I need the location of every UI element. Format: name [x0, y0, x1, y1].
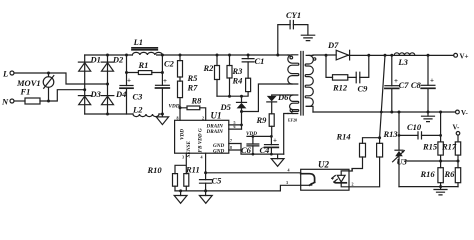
svg-text:+: +	[430, 77, 434, 85]
svg-text:2: 2	[202, 115, 204, 120]
svg-text:EF20: EF20	[288, 118, 297, 123]
svg-text:C7: C7	[399, 80, 410, 90]
svg-text:VDD: VDD	[169, 103, 180, 109]
svg-text:C6: C6	[241, 145, 252, 155]
svg-text:L: L	[2, 69, 8, 79]
svg-text:8: 8	[177, 115, 179, 120]
svg-text:R6: R6	[444, 169, 456, 179]
svg-text:F1: F1	[20, 87, 31, 97]
svg-text:4: 4	[288, 167, 290, 172]
svg-text:D2: D2	[112, 55, 124, 65]
svg-text:VDD: VDD	[180, 129, 186, 140]
svg-text:C5: C5	[212, 176, 223, 186]
svg-text:8: 8	[230, 145, 232, 150]
svg-text:R9: R9	[256, 115, 268, 125]
svg-text:C4: C4	[260, 145, 270, 155]
svg-text:D3: D3	[90, 89, 102, 99]
svg-text:CY1: CY1	[286, 10, 301, 20]
svg-text:R15: R15	[422, 142, 438, 152]
svg-text:U2: U2	[318, 160, 329, 170]
svg-text:R14: R14	[336, 132, 351, 142]
svg-text:+: +	[163, 77, 167, 85]
svg-text:7: 7	[230, 138, 232, 143]
svg-text:+: +	[394, 77, 398, 85]
svg-text:R11: R11	[185, 164, 200, 174]
svg-text:R17: R17	[441, 142, 457, 152]
svg-text:V+: V+	[460, 52, 469, 60]
svg-text:U1: U1	[211, 111, 222, 121]
svg-text:V-: V-	[461, 109, 469, 117]
svg-text:D4: D4	[115, 89, 126, 99]
svg-text:R7: R7	[187, 82, 199, 92]
svg-text:3: 3	[182, 155, 184, 160]
svg-text:2: 2	[352, 182, 354, 187]
svg-text:+: +	[273, 137, 277, 145]
svg-text:GND: GND	[213, 148, 224, 154]
svg-text:R4: R4	[232, 75, 243, 85]
svg-text:R3: R3	[232, 66, 244, 76]
svg-text:C1: C1	[255, 56, 265, 66]
svg-text:4: 4	[201, 155, 203, 160]
svg-text:C2: C2	[164, 59, 175, 69]
svg-text:+: +	[127, 77, 131, 85]
svg-text:R8: R8	[191, 96, 203, 106]
svg-text:DRAIN: DRAIN	[206, 129, 224, 135]
svg-text:D6: D6	[277, 92, 289, 102]
svg-text:R10: R10	[147, 165, 163, 175]
svg-text:D1: D1	[90, 55, 101, 65]
svg-text:FB VDD G: FB VDD G	[198, 128, 204, 152]
svg-text:6: 6	[234, 124, 236, 129]
svg-text:V-: V-	[453, 124, 461, 132]
svg-text:D7: D7	[327, 40, 339, 50]
svg-text:R16: R16	[420, 169, 436, 179]
svg-text:N: N	[1, 97, 9, 107]
svg-text:R13: R13	[383, 129, 399, 139]
svg-text:R12: R12	[332, 83, 348, 93]
svg-text:L1: L1	[133, 37, 143, 47]
svg-text:C8: C8	[411, 80, 422, 90]
svg-text:C10: C10	[407, 122, 422, 132]
svg-text:L3: L3	[397, 57, 408, 67]
svg-text:1: 1	[352, 168, 354, 173]
svg-text:R2: R2	[203, 63, 215, 73]
svg-text:L2: L2	[132, 104, 143, 114]
svg-text:C9: C9	[358, 84, 369, 94]
svg-text:R1: R1	[138, 60, 149, 70]
svg-text:3: 3	[286, 180, 288, 185]
svg-text:C3: C3	[133, 92, 144, 102]
